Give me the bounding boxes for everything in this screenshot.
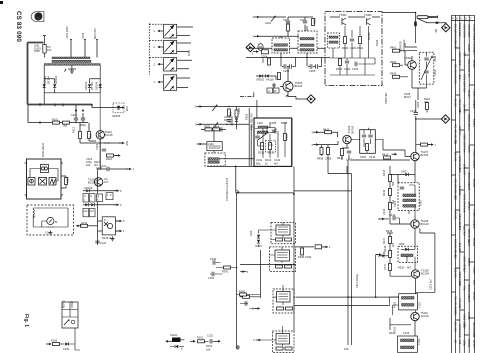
svg-text:R402: R402 <box>390 60 397 64</box>
svg-text:202-260: 202-260 <box>454 268 458 278</box>
resistor R118 <box>65 178 68 185</box>
svg-text:C124: C124 <box>100 241 107 245</box>
svg-text:R322: R322 <box>336 67 343 71</box>
tick marks rail <box>40 103 63 124</box>
capacitor C302 <box>220 127 222 131</box>
driver winding <box>402 297 415 300</box>
svg-text:111-148: 111-148 <box>454 152 458 162</box>
junction bus <box>235 166 237 168</box>
diamond M3 <box>442 23 450 31</box>
svg-text:10k: 10k <box>86 163 91 167</box>
output winding <box>401 339 415 342</box>
svg-text:C311: C311 <box>256 158 263 162</box>
meter M101 <box>47 217 54 224</box>
svg-text:0V6: 0V6 <box>472 280 476 285</box>
svg-text:R303: R303 <box>204 125 211 129</box>
connector diamond M1 <box>246 43 254 51</box>
resistor R403 <box>393 75 400 78</box>
telescopic antenna rod <box>417 16 428 19</box>
coil box 1 dashed <box>271 223 296 244</box>
capacitor C310 <box>272 130 276 132</box>
det winding 3 <box>403 205 416 208</box>
am IF winding <box>329 36 338 38</box>
svg-text:MONO: MONO <box>62 300 66 308</box>
osc coil dashed box <box>205 153 225 166</box>
svg-text:C413: C413 <box>389 213 396 217</box>
svg-text:BY164: BY164 <box>47 76 51 84</box>
diode K bottom <box>175 345 178 348</box>
svg-text:BF195: BF195 <box>367 32 371 40</box>
svg-text:C323: C323 <box>352 67 359 71</box>
head symbol 3 <box>49 178 56 186</box>
svg-text:R101: R101 <box>52 118 59 122</box>
output transformer box <box>398 336 418 352</box>
am IF can dashed <box>328 33 340 48</box>
input arrow band2 second <box>254 35 260 38</box>
head symbol 1 <box>28 178 35 186</box>
coil box 3 dashed <box>273 289 294 313</box>
wire c201 <box>287 17 289 36</box>
coil1 resistors <box>276 238 283 241</box>
transformer T101 core <box>52 60 91 62</box>
wire osc <box>201 129 214 153</box>
arrow left y271.6 <box>241 270 247 273</box>
svg-text:TAPE DECK: TAPE DECK <box>41 143 45 158</box>
svg-text:BC148: BC148 <box>105 133 113 137</box>
feedthrough blob <box>436 22 439 24</box>
svg-text:L302: L302 <box>257 121 263 125</box>
ground meter box <box>48 231 52 235</box>
det winding 1 <box>403 194 416 197</box>
wire branch y294.5 <box>237 294 261 296</box>
junction connect <box>237 192 239 194</box>
resistor R205 <box>278 73 281 80</box>
svg-text:R341: R341 <box>222 270 229 274</box>
svg-text:BC149: BC149 <box>421 222 429 226</box>
svg-text:MZV 250: MZV 250 <box>93 28 97 39</box>
wire center tap <box>71 65 73 69</box>
arrow in mixer <box>313 131 319 134</box>
capacitor C124 <box>95 241 99 243</box>
svg-text:T102: T102 <box>417 339 421 345</box>
coil3 resistors <box>277 307 284 310</box>
wire driver <box>390 292 435 312</box>
svg-text:C202: C202 <box>300 18 307 22</box>
wire rail x415.8 <box>415 111 417 152</box>
svg-text:TS101-TS199 VOLTAGES: TS101-TS199 VOLTAGES <box>472 24 476 55</box>
emitter wedge <box>285 94 288 96</box>
svg-text:47p: 47p <box>462 286 466 291</box>
IC block U101 <box>27 159 62 199</box>
legend table <box>62 300 79 328</box>
svg-text:10n: 10n <box>462 148 466 153</box>
svg-text:C304: C304 <box>224 115 231 119</box>
svg-text:R311: R311 <box>268 151 275 155</box>
svg-text:CONNECT A+B FM: CONNECT A+B FM <box>225 178 229 201</box>
thick vertical x292 <box>291 118 293 166</box>
resistor R342 <box>240 293 247 296</box>
transformer T101 primary <box>52 57 90 59</box>
svg-text:AC128: AC128 <box>472 292 476 300</box>
resistor R320 <box>344 37 347 44</box>
dashed meter box <box>27 205 74 235</box>
svg-text:AC127: AC127 <box>472 340 476 348</box>
wire rf bottom <box>412 88 427 111</box>
wire x232 lower <box>231 193 233 265</box>
wire rectifier right branch <box>90 79 101 93</box>
svg-text:STER: STER <box>70 301 74 308</box>
svg-text:M: M <box>55 220 57 224</box>
svg-text:127: 127 <box>104 180 109 184</box>
block pin ticks <box>25 163 64 195</box>
wire c202 <box>288 17 313 31</box>
wire bus y305.5 <box>294 305 390 307</box>
wire bus y297.1 <box>296 296 399 298</box>
svg-text:4k7: 4k7 <box>407 266 412 270</box>
capacitor C118 <box>102 149 106 151</box>
junction dots bus297 <box>375 296 377 298</box>
svg-text:C150: C150 <box>63 347 70 351</box>
svg-text:R: R <box>275 89 277 93</box>
wire det <box>398 171 415 183</box>
wire to diamond <box>288 97 306 100</box>
svg-text:R202: R202 <box>313 17 317 24</box>
meas boxes fm <box>267 88 273 93</box>
wire thick dc rail <box>28 104 93 106</box>
svg-text:2k2: 2k2 <box>89 133 93 138</box>
wire coil1 <box>271 223 283 240</box>
components am bottom <box>339 59 342 66</box>
svg-text:R: R <box>456 17 458 21</box>
wire r302 <box>236 107 238 130</box>
svg-text:C330: C330 <box>305 255 312 259</box>
wire connect line <box>236 192 294 194</box>
resistor R311 <box>269 143 272 150</box>
resistor R113 <box>79 132 82 139</box>
svg-text:R201-R299: R201-R299 <box>458 52 462 66</box>
resistor R102 <box>63 121 70 124</box>
cap c413 <box>393 216 395 220</box>
svg-text:10k 4k7: 10k 4k7 <box>458 126 462 136</box>
svg-text:C: C <box>461 17 463 21</box>
svg-text:C340: C340 <box>210 257 217 261</box>
svg-text:GR601: GR601 <box>467 339 471 348</box>
svg-text:4n7: 4n7 <box>462 52 466 57</box>
svg-text:3k9: 3k9 <box>63 124 68 128</box>
svg-text:250V: 250V <box>34 49 40 53</box>
svg-text:R312: R312 <box>265 158 272 162</box>
svg-text:R133: R133 <box>102 236 109 240</box>
svg-text:0.2: 0.2 <box>45 231 49 235</box>
svg-text:R320: R320 <box>342 46 349 50</box>
wire x294 junctions <box>293 264 295 266</box>
L201 winding bottom <box>274 49 288 51</box>
wire meter box <box>33 208 68 227</box>
table frame <box>452 15 475 353</box>
bottom connector cluster a <box>46 343 52 346</box>
table row dividers col2 <box>456 48 460 320</box>
wire can drops <box>281 26 307 58</box>
transistor TS412 <box>411 220 419 228</box>
coil box 2 dashed <box>270 247 296 272</box>
svg-text:56k: 56k <box>391 181 395 186</box>
svg-text:149-201: 149-201 <box>454 210 458 220</box>
svg-text:BF194: BF194 <box>472 60 476 68</box>
svg-text:PRINTED: PRINTED <box>384 92 388 104</box>
wire ts413 down <box>415 278 417 294</box>
meas box MB3 <box>97 194 103 202</box>
svg-text:K: K <box>104 218 106 222</box>
svg-text:1V2: 1V2 <box>472 224 476 229</box>
table column lines <box>456 15 470 353</box>
wire bridge output left <box>43 93 45 105</box>
svg-text:S: S <box>465 17 467 21</box>
wire am bottom <box>330 58 375 75</box>
diode GR106 <box>86 189 89 192</box>
svg-text:GR6: GR6 <box>399 242 405 246</box>
svg-text:56k: 56k <box>458 75 462 80</box>
wire mixer to ts411 <box>383 140 405 151</box>
svg-text:TS501: TS501 <box>472 266 476 274</box>
resistor R410 <box>325 131 332 134</box>
svg-text:63V: 63V <box>462 88 466 93</box>
resistor R116 <box>107 154 114 157</box>
svg-text:89-110: 89-110 <box>454 99 458 107</box>
svg-text:GR201-299: GR201-299 <box>467 114 471 128</box>
left af2 resistors <box>389 237 392 244</box>
left components mid bottom <box>243 295 250 298</box>
svg-text:Fig. 1: Fig. 1 <box>23 314 29 327</box>
coil4 resistors <box>276 347 283 350</box>
svg-text:BZX79: BZX79 <box>467 258 471 266</box>
svg-text:R410: R410 <box>323 128 330 132</box>
trimmer box <box>262 50 269 54</box>
svg-text:R408: R408 <box>317 157 324 161</box>
svg-text:R306: R306 <box>245 113 249 120</box>
svg-text:R418: R418 <box>386 229 393 233</box>
junction row1 <box>97 168 99 170</box>
motor symbol <box>41 165 49 173</box>
head symbol 2 <box>39 178 47 186</box>
svg-text:C201: C201 <box>283 18 290 22</box>
wire row3 <box>83 204 116 206</box>
resistor R330 vertical <box>301 248 304 255</box>
svg-text:LS101: LS101 <box>170 333 178 337</box>
coupling dashed line <box>148 23 150 74</box>
svg-text:R421: R421 <box>393 301 397 308</box>
registration mark top-left <box>0 1 3 4</box>
svg-text:mV: mV <box>90 209 94 213</box>
wire rf <box>400 43 417 88</box>
transistor TS411 <box>411 152 419 160</box>
wire fm in <box>259 16 287 18</box>
svg-text:C402: C402 <box>433 55 437 62</box>
resistor R303 <box>205 128 212 131</box>
svg-text:BF195: BF195 <box>472 119 476 127</box>
arrow af in2 <box>379 255 385 258</box>
svg-text:C322: C322 <box>344 67 351 71</box>
svg-text:M6: M6 <box>434 29 438 33</box>
svg-text:U: U <box>268 89 270 93</box>
junction dot rail <box>91 104 93 106</box>
resistor R131 <box>81 224 88 227</box>
transistor TS110 <box>96 131 104 139</box>
vertical long x232 <box>235 166 237 193</box>
wire verticals x348 x351 <box>348 160 352 345</box>
antenna jack oval <box>258 44 263 51</box>
wire y160 <box>351 159 410 161</box>
svg-text:18k: 18k <box>458 282 462 287</box>
resistor R201 <box>287 24 290 31</box>
mixer box <box>360 130 376 154</box>
svg-text:R323: R323 <box>375 39 379 46</box>
wire bus y264.4 <box>240 263 296 265</box>
vertical x257 <box>256 100 258 122</box>
zener dashed box <box>113 103 124 113</box>
svg-text:S103: S103 <box>467 240 471 247</box>
wire row2 <box>83 190 116 192</box>
wire coil3 <box>273 285 283 305</box>
meas box MB4 <box>106 193 113 200</box>
capacitor C115 <box>74 118 78 120</box>
wire fuse to primary <box>44 53 46 58</box>
wire driver left leads <box>393 305 399 315</box>
svg-text:C151: C151 <box>207 334 214 338</box>
wire r116 out <box>114 155 118 157</box>
svg-text:R419: R419 <box>383 245 387 252</box>
dashdot corner fm box <box>240 91 254 97</box>
transistor TS302 symbol <box>367 18 371 25</box>
vertical x294 long <box>293 166 295 331</box>
table row dividers col3 <box>460 70 465 310</box>
input arrow band2 third <box>253 50 259 53</box>
svg-text:R330: R330 <box>298 255 305 259</box>
svg-text:TS301: TS301 <box>339 13 347 17</box>
svg-text:6V8: 6V8 <box>472 104 476 109</box>
svg-text:R101-R199: R101-R199 <box>458 23 462 37</box>
diode GR107 <box>85 203 88 206</box>
wire R118 <box>65 176 67 188</box>
svg-text:BC148: BC148 <box>472 179 476 187</box>
switch tick row2 <box>213 122 218 129</box>
speaker cluster black box <box>172 338 181 343</box>
svg-text:33k: 33k <box>454 140 458 145</box>
svg-text:P: P <box>452 17 454 21</box>
svg-text:150: 150 <box>454 196 458 201</box>
svg-text:R304: R304 <box>213 125 220 129</box>
junction x294 <box>293 193 295 195</box>
wire af2 <box>387 233 411 276</box>
wire ts411 base <box>405 150 415 157</box>
wire to ts410 <box>317 132 338 137</box>
svg-text:301-399 149-230: 301-399 149-230 <box>454 64 458 84</box>
transistor TS301 symbol <box>342 18 346 25</box>
wire row y129.4 <box>201 128 226 130</box>
wire rod diagonal to jack <box>418 19 441 23</box>
wire ts411 collector down <box>414 161 416 171</box>
wire tuner extra <box>258 122 286 157</box>
svg-text:R411: R411 <box>337 156 344 160</box>
svg-text:C115: C115 <box>71 113 78 117</box>
svg-text:25V: 25V <box>462 324 466 329</box>
resistor R414 arrow <box>421 143 428 146</box>
wire meter to meterbox caps <box>47 226 54 228</box>
wire collector down <box>99 139 101 168</box>
resistor R302 <box>235 110 238 117</box>
diode GR104 <box>99 84 102 87</box>
capacitor C202 <box>303 21 307 23</box>
diode GR103 <box>88 84 91 87</box>
mixer cap b <box>368 135 372 137</box>
preamp box TS112 <box>102 217 115 235</box>
wire det box <box>409 185 415 216</box>
det cap <box>400 187 404 189</box>
svg-text:220: 220 <box>344 347 349 351</box>
svg-text:L410: L410 <box>419 200 423 206</box>
svg-text:C206: C206 <box>309 69 316 73</box>
diamond M2 <box>307 95 315 103</box>
wire am mid <box>333 26 369 58</box>
wire mixer <box>351 130 383 153</box>
ground fm <box>272 83 276 87</box>
svg-text:R701-R799: R701-R799 <box>458 324 462 338</box>
gang cap 1 <box>424 58 428 60</box>
svg-text:101: 101 <box>47 48 52 52</box>
wire fm out arrow <box>197 105 203 108</box>
wire fm line2 <box>259 35 300 37</box>
switch S101c <box>149 58 192 72</box>
wire lower rail <box>28 122 88 124</box>
ground center tap <box>65 69 77 72</box>
IF can L201 dashed <box>272 38 290 53</box>
input arrow band2 top <box>254 16 260 19</box>
wire secondary frame <box>44 65 100 93</box>
IF can L202 dashed <box>298 31 317 53</box>
coil2 resistors <box>276 265 283 268</box>
svg-text:C403: C403 <box>433 69 437 76</box>
svg-text:C310: C310 <box>274 127 278 134</box>
svg-text:C121: C121 <box>100 164 107 168</box>
resistor R203 <box>268 58 271 65</box>
svg-text:R342: R342 <box>239 290 246 294</box>
transistor TS410 <box>343 135 351 143</box>
svg-text:5V6: 5V6 <box>125 141 129 146</box>
svg-text:R131: R131 <box>81 221 88 225</box>
wire r408 r409 <box>322 145 348 174</box>
svg-text:GR101: GR101 <box>43 75 47 84</box>
svg-text:C416: C416 <box>403 331 410 335</box>
svg-text:6V8: 6V8 <box>125 107 129 112</box>
svg-text:S402: S402 <box>360 155 367 159</box>
svg-text:1k8: 1k8 <box>458 340 462 345</box>
wire bus y57.5 <box>246 57 330 59</box>
svg-text:AA119: AA119 <box>467 312 471 320</box>
svg-text:R113: R113 <box>72 126 76 133</box>
resistor R408 <box>320 148 323 155</box>
svg-text:22n 63V: 22n 63V <box>462 104 466 114</box>
wire block internals <box>30 169 58 182</box>
mid cluster caps y256-280 <box>213 260 215 264</box>
ground preamp <box>111 237 115 241</box>
coil box 4 dashed <box>272 331 294 353</box>
wire y190.9 <box>294 190 352 192</box>
svg-text:GRAMO: GRAMO <box>230 116 234 126</box>
wire coil4 <box>260 326 283 346</box>
svg-text:S101-S199: S101-S199 <box>467 24 471 38</box>
svg-text:L301: L301 <box>208 142 214 146</box>
svg-text:R308: R308 <box>281 121 288 125</box>
svg-text:C106: C106 <box>81 32 85 39</box>
